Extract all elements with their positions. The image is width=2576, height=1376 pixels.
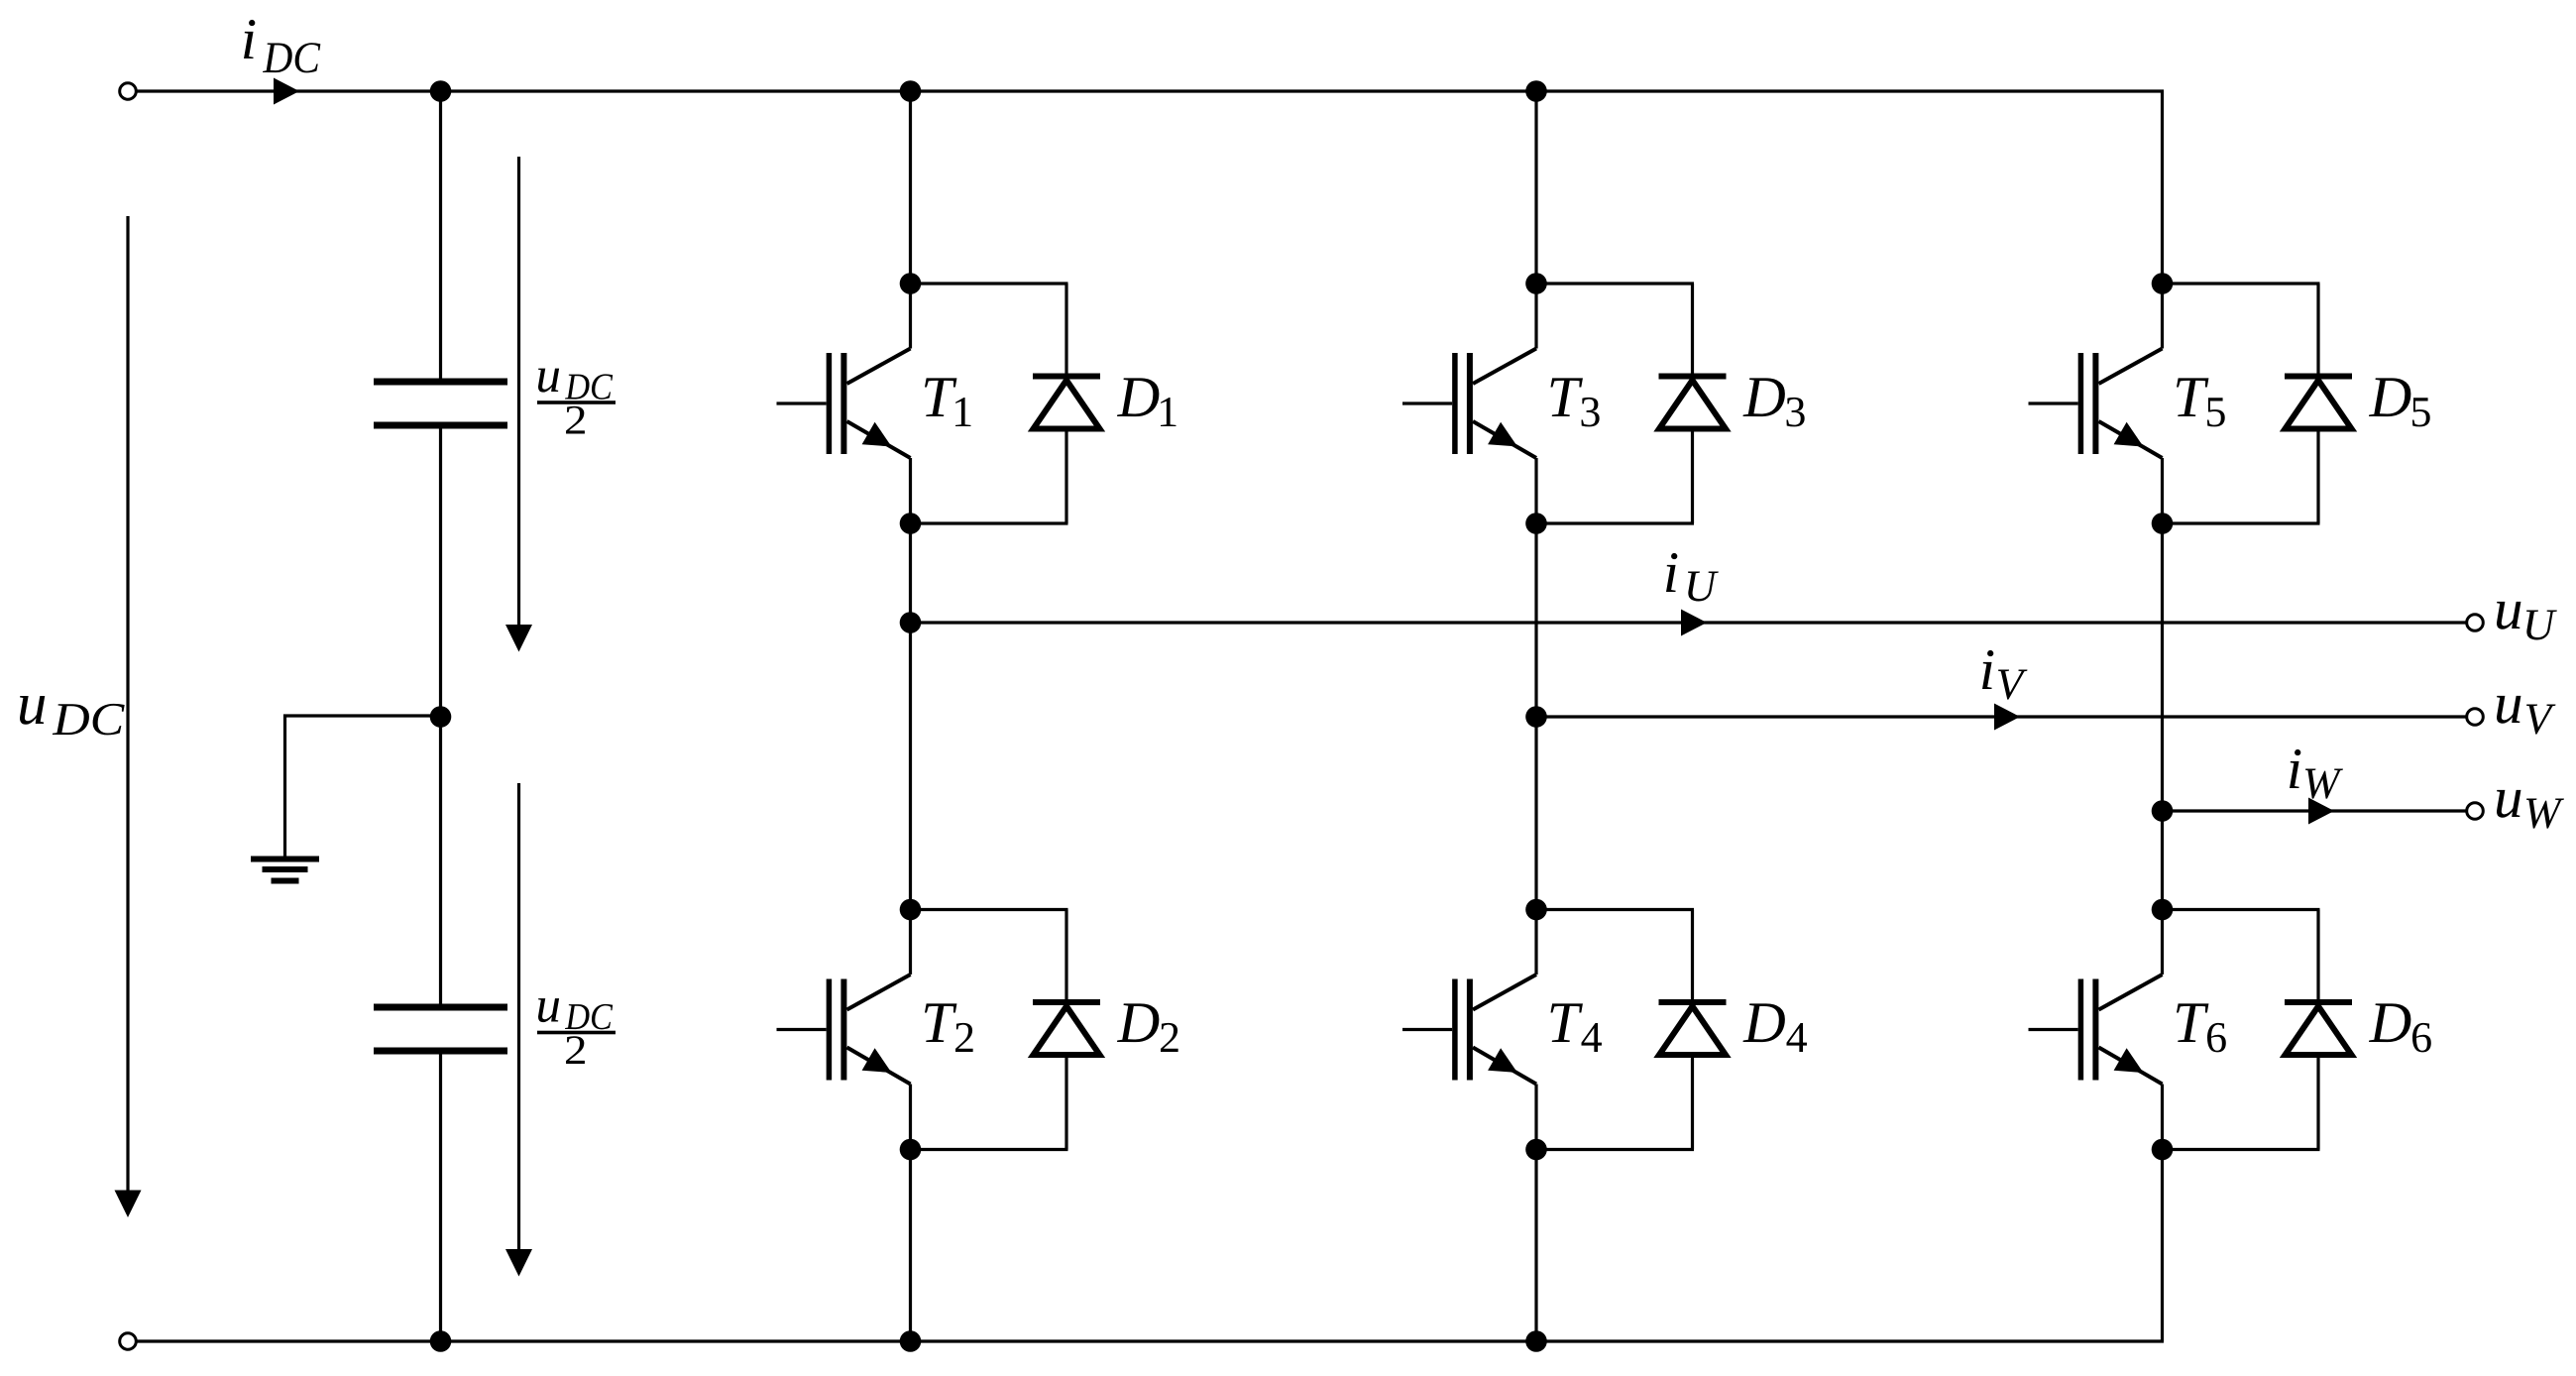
diode D5	[2285, 284, 2352, 523]
junction T2 emitter	[900, 1139, 922, 1161]
junction top leg2	[1525, 80, 1547, 102]
diode D4	[1659, 910, 1727, 1150]
label T5	[2177, 378, 2225, 426]
wire leg3 upper	[2161, 90, 2164, 349]
wire phase U output	[911, 621, 2467, 624]
terminal DC- input	[120, 1333, 137, 1350]
junction T3 collector	[1525, 273, 1547, 294]
label T4	[1551, 1003, 1602, 1052]
wire leg2 middle	[1534, 458, 1537, 975]
wire D2 bottom link	[911, 1148, 1068, 1151]
wire leg1 upper	[909, 90, 912, 349]
label D2	[1117, 1003, 1178, 1052]
arrow uDC/2 lower	[505, 783, 532, 1277]
transistor T6	[2029, 975, 2163, 1085]
transistor T5	[2029, 349, 2163, 459]
wire phase W output	[2163, 809, 2467, 812]
wire leg3 middle	[2161, 458, 2164, 975]
wire ground branch	[285, 716, 441, 857]
junction phase W tap	[2152, 800, 2174, 822]
wire D5 top link	[2163, 282, 2320, 285]
diode D3	[1659, 284, 1727, 523]
junction phase V tap	[1525, 706, 1547, 728]
label iDC	[244, 20, 320, 72]
junction T3 emitter	[1525, 513, 1547, 534]
label iW	[2290, 749, 2343, 799]
junction phase U tap	[900, 612, 922, 633]
junction bottom DC-link	[430, 1330, 452, 1352]
wire phase V output	[1536, 715, 2467, 718]
label iU	[1666, 553, 1719, 602]
label C2 value uDC/2	[537, 998, 616, 1064]
label D4	[1742, 1003, 1806, 1052]
label uDC	[20, 696, 125, 735]
label T1	[925, 378, 970, 426]
wire leg2 upper	[1534, 90, 1537, 349]
diode D2	[1033, 910, 1100, 1150]
junction T2 collector	[900, 899, 922, 921]
label D1	[1117, 378, 1176, 426]
junction T1 emitter	[900, 513, 922, 534]
diode D1	[1033, 284, 1100, 523]
transistor T3	[1402, 349, 1536, 459]
transistor T2	[777, 975, 911, 1085]
wire leg1 lower	[909, 1085, 912, 1342]
arrow iV	[1994, 704, 2020, 731]
junction T5 emitter	[2152, 513, 2174, 534]
label T3	[1551, 378, 1600, 426]
junction top DC-link	[430, 80, 452, 102]
capacitor C2	[374, 1007, 507, 1051]
junction bottom leg2	[1525, 1330, 1547, 1352]
wire DC-link lower	[439, 1055, 442, 1342]
arrow iDC	[274, 78, 299, 105]
wire DC-link middle	[439, 429, 442, 1004]
terminal uU	[2467, 615, 2484, 631]
terminal uW	[2467, 803, 2484, 820]
arrow iU	[1681, 610, 1707, 636]
wire leg1 middle	[909, 458, 912, 975]
arrow uDC/2 upper	[505, 157, 532, 652]
junction T4 collector	[1525, 899, 1547, 921]
terminal uV	[2467, 709, 2484, 726]
terminal DC+ input	[120, 83, 137, 100]
wire D4 bottom link	[1536, 1148, 1694, 1151]
capacitor C1	[374, 382, 507, 425]
wire D1 bottom link	[911, 521, 1068, 524]
label T2	[925, 1003, 973, 1052]
wire D6 top link	[2163, 908, 2320, 911]
label uW	[2497, 790, 2564, 829]
wire D3 top link	[1536, 282, 1694, 285]
diode D6	[2285, 910, 2352, 1150]
junction T1 collector	[900, 273, 922, 294]
junction T6 collector	[2152, 899, 2174, 921]
wire bottom DC rail	[136, 1339, 2164, 1342]
wire D2 top link	[911, 908, 1068, 911]
wire D5 bottom link	[2163, 521, 2320, 524]
junction T6 emitter	[2152, 1139, 2174, 1161]
wire D6 bottom link	[2163, 1148, 2320, 1151]
wire D4 top link	[1536, 908, 1694, 911]
transistor T1	[777, 349, 911, 459]
label D5	[2369, 378, 2430, 426]
transistor T4	[1402, 975, 1536, 1085]
junction DC-link midpoint	[430, 706, 452, 728]
junction top leg1	[900, 80, 922, 102]
junction bottom leg1	[900, 1330, 922, 1352]
junction T4 emitter	[1525, 1139, 1547, 1161]
arrow uDC voltage	[115, 216, 142, 1217]
wire leg2 lower	[1534, 1085, 1537, 1342]
ground	[251, 860, 319, 881]
label uU	[2497, 602, 2557, 640]
label uV	[2497, 696, 2555, 735]
label D3	[1742, 378, 1804, 426]
label T6	[2177, 1003, 2226, 1052]
junction T5 collector	[2152, 273, 2174, 294]
label C1 value uDC/2	[537, 369, 616, 434]
wire top DC rail	[136, 89, 2164, 92]
wire leg3 lower	[2161, 1085, 2164, 1342]
wire D3 bottom link	[1536, 521, 1694, 524]
label D6	[2369, 1003, 2431, 1052]
label iV	[1982, 650, 2027, 700]
arrow iW	[2308, 798, 2334, 825]
wire D1 top link	[911, 282, 1068, 285]
wire DC-link upper	[439, 91, 442, 379]
